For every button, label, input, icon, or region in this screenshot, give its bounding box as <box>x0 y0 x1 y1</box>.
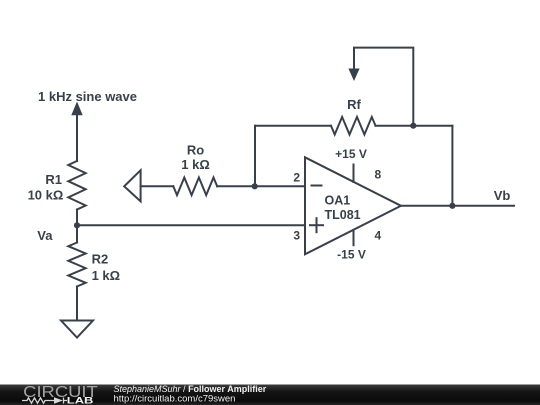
svg-text:Va: Va <box>37 228 53 243</box>
svg-text:-15 V: -15 V <box>337 248 366 262</box>
svg-text:10 kΩ: 10 kΩ <box>28 188 64 203</box>
svg-text:2: 2 <box>293 170 300 184</box>
svg-text:+15 V: +15 V <box>335 147 367 161</box>
svg-text:http://circuitlab.com/c79swen: http://circuitlab.com/c79swen <box>114 394 236 405</box>
svg-text:R1: R1 <box>45 172 62 187</box>
svg-text:Rf: Rf <box>347 97 361 112</box>
svg-text:R2: R2 <box>92 252 109 267</box>
svg-text:8: 8 <box>375 168 382 182</box>
svg-text:Vb: Vb <box>494 188 511 203</box>
svg-text:LAB: LAB <box>67 396 94 405</box>
svg-text:OA1: OA1 <box>325 193 351 207</box>
svg-text:1 kΩ: 1 kΩ <box>92 268 121 283</box>
svg-text:1 kHz sine wave: 1 kHz sine wave <box>38 89 137 104</box>
svg-text:4: 4 <box>375 229 382 243</box>
svg-text:Ro: Ro <box>187 142 204 157</box>
svg-text:3: 3 <box>293 228 300 242</box>
svg-text:1 kΩ: 1 kΩ <box>181 157 210 172</box>
svg-text:TL081: TL081 <box>325 208 361 222</box>
